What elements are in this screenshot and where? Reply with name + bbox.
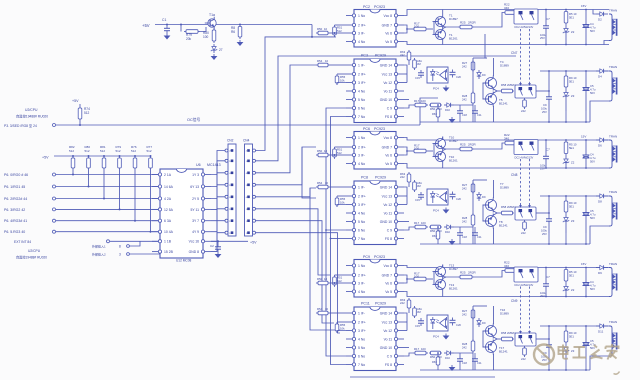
svg-text:10: 10 [324,149,328,153]
resistor R80 100 [203,28,216,43]
capacitor C4 4.7u channel 6 [581,135,596,169]
optocoupler PC4 channel 11 [427,315,448,339]
resistor R15 channel 8 [413,180,422,192]
ic PC9 PC923 optocoupler driver [346,255,404,297]
transistor T13b B1261 [433,278,459,297]
svg-text:50V: 50V [590,91,595,95]
svg-text:R25: R25 [460,271,466,275]
transformer TRAN channel 8 [609,190,617,226]
wire top rail channel 11 [540,325,609,339]
wire input P6. 4 [4,219,160,223]
svg-text:B1261: B1261 [449,287,458,291]
svg-text:D4: D4 [598,75,602,79]
wire input P6. 3 [4,208,160,212]
svg-text:+5V: +5V [72,99,79,103]
connector CN8 dashed link [511,159,531,208]
svg-text:3Y 7: 3Y 7 [192,219,199,223]
svg-text:50V: 50V [590,160,595,164]
svg-text:50V: 50V [590,216,595,220]
wire bottom rail channel 9 [404,292,609,297]
svg-text:Vo 6: Vo 6 [385,153,392,157]
svg-text:CN4: CN4 [243,139,250,143]
svg-text:10 4A: 10 4A [164,230,174,234]
transistor T4 D1899 [483,58,510,91]
svg-text:Vo 6: Vo 6 [385,31,392,35]
svg-text:Vcc 13: Vcc 13 [382,320,392,324]
wire OC signal [56,98,438,125]
wire base drive channel 2 [404,25,412,33]
svg-text:PC8: PC8 [361,176,368,180]
svg-text:C9: C9 [543,225,547,229]
wire bus CN4 row1 to PC2 input [256,37,337,151]
svg-text:10: 10 [325,307,329,311]
svg-text:PC11: PC11 [361,302,370,306]
svg-text:R54: R54 [317,181,323,185]
transistor T1b B1261 [433,28,459,45]
svg-text:3 IF+: 3 IF+ [358,329,366,333]
wire bottom net channel 8 [437,226,475,244]
svg-text:512: 512 [69,149,74,153]
resistor R82 512 [69,145,75,176]
svg-text:340: 340 [504,137,509,141]
svg-text:242: 242 [400,301,405,305]
resistor R63 small vertical channel 8 [432,229,440,241]
svg-text:EXT INT 84: EXT INT 84 [14,240,31,244]
watermark logo ring [534,345,554,365]
transistor T16 D1899 [483,306,510,339]
svg-text:2Y 5: 2Y 5 [192,197,199,201]
capacitor C5 4.7u channel 4 [583,70,596,111]
connector CN9 dashed link [511,287,531,335]
diode D11 channel 11 [596,324,608,334]
svg-text:4 No: 4 No [358,211,365,215]
svg-text:D10: D10 [445,230,450,234]
svg-text:D9: D9 [598,271,602,275]
svg-text:D2: D2 [598,18,602,22]
resistor R81 512 [100,145,106,200]
svg-text:2 IF+: 2 IF+ [358,320,366,324]
svg-text:GND 7: GND 7 [382,23,392,27]
svg-text:+5V: +5V [142,23,150,28]
svg-text:4 No: 4 No [358,290,365,294]
capacitor C9 100u channel 4 [541,90,552,114]
transistor T5 B1241 [483,83,509,122]
ground at opto channel 8 [443,208,450,214]
svg-text:Vo 11: Vo 11 [384,211,393,215]
svg-text:D1899: D1899 [500,186,509,190]
svg-text:C7: C7 [546,17,550,21]
resistor R55 10k vertical [335,196,346,207]
svg-text:PC923: PC923 [374,127,385,131]
svg-text:5E1: 5E1 [569,335,574,339]
svg-text:Vo 12: Vo 12 [383,329,392,333]
svg-text:GND 7: GND 7 [382,273,392,277]
svg-text:C20: C20 [456,197,461,201]
wire fault chain C pins x326 [325,108,346,356]
svg-text:10: 10 [325,181,329,185]
capacitor C20 channel 4 [450,70,462,80]
svg-text:4 No: 4 No [358,89,365,93]
resistor R13 242 channel 8 [400,172,411,187]
resistor R9 5E1 channel 8 [564,196,577,214]
resistor input network PC929 [316,59,346,67]
svg-text:5E1: 5E1 [569,205,574,209]
svg-text:512: 512 [84,111,90,115]
svg-text:Z2: Z2 [571,161,575,165]
svg-text:Vcc 13: Vcc 13 [382,194,392,198]
wire input P6. 5.RG3 40 [4,230,160,234]
svg-text:512: 512 [337,279,342,283]
svg-text:P3. 3/SED /RG8 至 24: P3. 3/SED /RG8 至 24 [4,124,37,128]
svg-text:D10: D10 [445,356,450,360]
svg-text:25V: 25V [542,110,547,114]
wire emitter node channel 8 [494,211,501,215]
svg-text:TRAN: TRAN [609,65,617,69]
ground bottom channel 8 [449,239,456,245]
watermark text zhi [591,345,603,359]
svg-text:GND 14: GND 14 [380,185,392,189]
resistor R8 [231,24,242,40]
resistor R13 242 channel 11 [400,298,411,313]
ic PC2 PC923 optocoupler driver [346,5,404,47]
capacitor C9 100u channel 8 [541,212,552,236]
svg-text:15V: 15V [581,4,586,8]
diode D10 bottom channel 8 [444,225,454,234]
svg-text:CN7: CN7 [511,51,518,55]
wire input P6. 2 [4,197,160,201]
wire input P6. 1 [4,185,160,189]
connector CN2 [225,139,236,237]
svg-text:15V: 15V [581,262,586,266]
power +5V at U6 pin16 [211,240,257,244]
wire collector rail channel 8 [473,180,487,221]
resistor input network PC929 [316,181,346,189]
wire bus vertical x310 lower [310,188,340,330]
ground bottom channel 4 [449,117,456,123]
svg-text:4 2A: 4 2A [164,197,172,201]
svg-text:25V: 25V [540,294,545,298]
wire bottom rail channel 4 [420,101,609,123]
svg-text:C11: C11 [477,361,482,365]
svg-text:GND 10: GND 10 [380,98,392,102]
relay contact block channel 11 [515,333,536,346]
ic PC3 PC929 optocoupler driver [346,54,404,123]
diode D9 channel 11 [477,318,486,327]
wire collector rail channel 4 [473,58,487,99]
svg-text:C 9: C 9 [387,106,392,110]
svg-text:5 No: 5 No [358,98,365,102]
svg-text:242: 242 [521,357,526,361]
wire bus CN4 row8 to PC11 input 2 [256,233,341,333]
svg-text:242: 242 [462,346,467,350]
wire top rail channel 8 [540,195,609,213]
svg-text:242: 242 [462,187,467,191]
svg-text:512: 512 [337,151,342,155]
resistor R50 750 bottom channel 11 [429,351,442,359]
svg-text:D1897: D1897 [449,267,458,271]
svg-text:100: 100 [421,221,426,225]
svg-text:PC6: PC6 [363,127,370,131]
svg-text:自监控19488# RU020: 自监控19488# RU020 [16,255,47,260]
svg-text:P6. 2/RG2# 44: P6. 2/RG2# 44 [4,197,27,201]
svg-text:D11: D11 [598,330,604,334]
svg-text:25V: 25V [542,232,547,236]
relay contact block channel 8 [515,207,536,220]
svg-text:U2/CPU: U2/CPU [25,108,38,112]
svg-text:PC2: PC2 [363,5,370,9]
wire Vcc rail channel 2 [404,10,609,16]
svg-text:512: 512 [337,29,342,33]
svg-text:B1261: B1261 [449,159,458,163]
resistor R28 242 channel 8 [462,213,475,227]
svg-text:10: 10 [324,27,328,31]
wire bus CN4 row2 to PC3 input [256,56,517,161]
svg-text:512: 512 [131,149,136,153]
resistor R60 100 bottom channel 11 [404,347,428,356]
svg-text:1 No: 1 No [358,14,365,18]
svg-text:Z3: Z3 [571,94,575,98]
resistor R25 2R2 channel 6 [458,143,504,151]
label U2/CPU bottom [16,249,47,260]
svg-text:DC2.4V/M/213V: DC2.4V/M/213V [515,156,534,160]
svg-text:512: 512 [100,149,105,153]
transformer TRAN channel 11 [609,320,617,356]
svg-text:外部输入1: 外部输入1 [92,244,106,249]
svg-text:Vo 5: Vo 5 [385,40,392,44]
svg-text:15V: 15V [581,135,586,139]
svg-text:+5V: +5V [250,240,257,244]
svg-text:R54: R54 [317,59,323,63]
svg-text:GND 8: GND 8 [189,250,199,254]
capacitor C20 channel 8 [450,192,462,202]
resistor R58 channel 4 [500,83,515,93]
svg-text:Vcc 8: Vcc 8 [384,264,393,268]
svg-text:D6: D6 [598,144,602,148]
svg-text:P6. 3/RG2 42: P6. 3/RG2 42 [4,208,25,212]
svg-text:FS 8: FS 8 [385,115,392,119]
svg-text:20k: 20k [186,37,192,41]
wire bottom net channel 11 [437,352,475,370]
resistor R9 5E1 channel 11 [564,326,577,344]
svg-text:4 No: 4 No [358,162,365,166]
svg-text:512: 512 [85,149,90,153]
svg-text:5E1: 5E1 [569,146,574,150]
zener Z3 channel 4 [563,89,575,111]
wire bus CN4 row7 to PC11 input [256,221,335,323]
watermark text jia [606,344,619,360]
resistor R17 100 channel 6 [412,144,433,153]
svg-text:50V: 50V [590,287,595,291]
capacitor C4 4.7u channel 2 [581,4,596,45]
resistor R5B 242 below contacts channel 4 [521,98,526,113]
svg-text:PC929: PC929 [375,302,386,306]
svg-text:C 9: C 9 [387,228,392,232]
capacitor C7 channel 2 [540,9,550,46]
resistor R22 340 channel 9 [504,261,516,273]
capacitor C18 small channel 11 [457,356,467,365]
svg-text:2M52N: 2M52N [507,205,515,209]
resistor R22 340 channel 6 [504,133,516,145]
wire EXT INT input [14,240,160,244]
wire top rail channel 4 [540,70,609,91]
svg-text:6 3A: 6 3A [164,219,172,223]
diode D6 channel 6 [596,138,608,148]
zener Z2 channel 2 [563,25,575,45]
node external input 1 [92,241,140,248]
svg-text:7 No: 7 No [358,363,365,367]
capacitor C11 channel 11 [472,356,482,365]
resistor R28 242 channel 11 [462,339,475,353]
wire +5V rail drop to PC2 inputs [311,25,313,38]
svg-text:R17: R17 [414,347,420,351]
svg-text:PC4: PC4 [433,87,439,91]
wire emitter output channel 2 [443,27,458,29]
svg-text:242: 242 [400,175,405,179]
resistor input network PC923 [316,277,344,287]
svg-text:C20: C20 [456,75,461,79]
svg-text:100: 100 [421,347,426,351]
svg-text:2 IF+: 2 IF+ [358,145,366,149]
zener Z3 channel 8 [563,214,575,233]
svg-text:C1: C1 [162,18,166,22]
svg-text:Vcc 8: Vcc 8 [384,14,393,18]
svg-text:DC2.4V/M/213V: DC2.4V/M/213V [515,25,534,29]
svg-text:R63: R63 [432,234,437,238]
svg-text:3M: 3M [417,62,421,66]
resistor R5B 242 below contacts channel 11 [521,346,526,361]
svg-text:4 No: 4 No [358,337,365,341]
resistor R15 channel 11 [413,306,422,318]
svg-text:2M52N: 2M52N [507,83,515,87]
resistor R55 10k vertical [335,322,346,333]
svg-text:242: 242 [462,65,467,69]
capacitor C15 channel 11 [415,318,424,328]
svg-text:TRAN: TRAN [609,190,617,194]
svg-text:B1241: B1241 [499,102,508,106]
resistor R27 242 channel 8 [462,182,475,194]
power +5V pull-up row [42,156,151,160]
svg-text:D9: D9 [482,73,486,77]
svg-text:1 No: 1 No [358,136,365,140]
svg-text:Vo 5: Vo 5 [385,162,392,166]
wire bottom net channel 4 [437,104,475,122]
wire bus CN4 row6 to PC9 input [256,209,331,275]
svg-text:6Y 13: 6Y 13 [190,185,199,189]
svg-text:D8: D8 [598,200,602,204]
diode D8 channel 8 [596,194,608,204]
resistor R79 20k [180,24,206,42]
wire emitter node channel 4 [494,89,501,93]
resistor R51 512 vertical [330,275,346,287]
svg-text:1 No: 1 No [358,264,365,268]
resistor R50 750 bottom channel 4 [429,103,442,111]
resistor R60 100 bottom channel 4 [404,99,428,108]
svg-text:Vcc 13: Vcc 13 [382,72,392,76]
svg-text:100: 100 [414,147,419,151]
svg-text:242: 242 [462,220,467,224]
svg-text:C18: C18 [462,235,467,239]
wire output to gate channel 4 [536,90,549,92]
svg-text:GND 10: GND 10 [380,220,392,224]
svg-text:6 No: 6 No [358,228,365,232]
svg-text:100u: 100u [541,229,547,233]
svg-text:GND 7: GND 7 [382,145,392,149]
svg-text:C15: C15 [415,324,420,328]
svg-text:PC929: PC929 [375,176,386,180]
svg-text:R50: R50 [430,107,436,111]
svg-text:R50: R50 [430,229,436,233]
diode D10 bottom channel 4 [444,103,454,112]
diode D10 bottom channel 11 [444,351,454,360]
svg-text:3: 3 [119,253,121,257]
ic PC11 PC929 optocoupler driver [346,302,404,371]
resistor R13 242 channel 4 [400,50,411,65]
svg-text:1 IF-: 1 IF- [358,63,365,67]
svg-text:Z3: Z3 [571,219,575,223]
svg-text:10: 10 [325,59,329,63]
ic U6 MC1413 driver array [152,163,221,258]
svg-text:Vo 12: Vo 12 [383,81,392,85]
ground at C2 [215,252,222,258]
capacitor C1 [162,18,170,34]
svg-text:TRAN: TRAN [609,262,617,266]
resistor R51 512 vertical [330,147,346,159]
svg-text:512: 512 [116,149,121,153]
resistor R17 100 channel 2 [412,22,433,31]
svg-text:3 IF-: 3 IF- [358,281,365,285]
svg-text:R17: R17 [414,221,420,225]
capacitor C11 channel 8 [472,230,482,239]
relay contact block channel 6 [514,140,538,160]
resistor R63 small vertical channel 4 [432,107,440,119]
optocoupler PC4 channel 8 [427,189,448,213]
svg-text:242: 242 [521,231,526,235]
svg-text:1Y 3: 1Y 3 [192,173,199,177]
svg-text:D1899: D1899 [500,312,509,316]
svg-text:DC2.4V/M/213V: DC2.4V/M/213V [515,283,534,287]
svg-text:340: 340 [504,6,509,10]
wire output join channel 11 [404,313,407,331]
svg-text:5 No: 5 No [358,220,365,224]
svg-text:D9: D9 [482,321,486,325]
svg-text:P6. 4/RG3# 41: P6. 4/RG3# 41 [4,219,27,223]
svg-text:GND 14: GND 14 [380,311,392,315]
svg-text:3 IF+: 3 IF+ [358,81,366,85]
svg-text:12 5A: 12 5A [164,208,174,212]
svg-text:Vcc 16: Vcc 16 [189,240,199,244]
svg-text:FS 8: FS 8 [385,363,392,367]
resistor input network PC929 [316,307,346,315]
resistor input network PC923 [316,27,344,37]
resistor R77 512 [147,145,153,233]
svg-text:R50: R50 [317,277,323,281]
svg-text:27: 27 [219,48,223,52]
connector CN7 dashed link [511,29,531,86]
svg-text:C7: C7 [546,148,550,152]
svg-text:1 IF-: 1 IF- [358,185,365,189]
resistor R5 5E1 channel 6 [564,139,577,155]
svg-text:外部输入2: 外部输入2 [92,252,106,257]
svg-text:242: 242 [462,313,467,317]
diode D9 channel 9 [596,265,608,275]
optocoupler PC4 channel 4 [427,67,448,91]
ground bottom channel 11 [449,365,456,371]
svg-text:MC1413: MC1413 [207,163,221,167]
svg-text:C15: C15 [415,198,420,202]
svg-text:TRAN: TRAN [609,135,617,139]
svg-text:PC9: PC9 [363,255,370,259]
capacitor C18 small channel 4 [457,108,467,117]
